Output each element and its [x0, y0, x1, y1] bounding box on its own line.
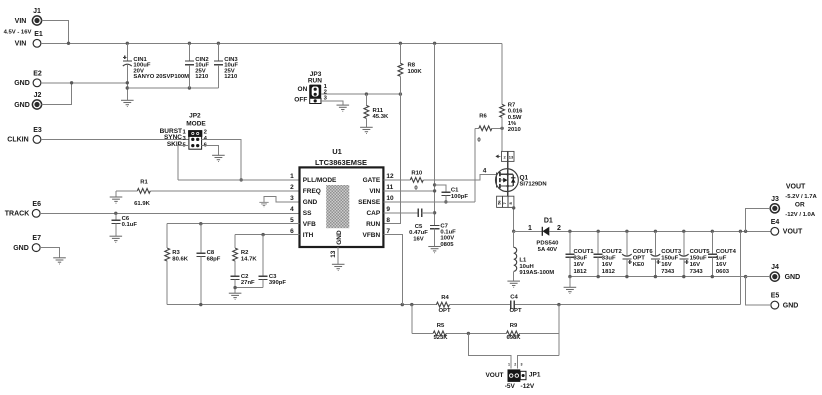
svg-text:D1: D1: [544, 217, 553, 224]
svg-text:100pF: 100pF: [451, 194, 468, 200]
capacitor C3: [259, 235, 287, 288]
svg-text:100K: 100K: [408, 69, 423, 75]
svg-text:33uF: 33uF: [574, 256, 588, 262]
svg-text:-5V: -5V: [505, 383, 516, 390]
svg-text:C3: C3: [269, 274, 277, 280]
svg-text:14.7K: 14.7K: [241, 256, 257, 262]
capacitor COUT4: [708, 231, 737, 276]
capacitor COUT5: [679, 231, 710, 276]
wire E2 to input gnd node: [41, 82, 127, 84]
wire drain to SW node: [513, 207, 515, 231]
wire R5 R9 line: [412, 332, 559, 334]
svg-text:13: 13: [330, 250, 337, 258]
svg-text:U1: U1: [332, 147, 342, 156]
ground R1: [110, 197, 123, 203]
wire SENSE line: [383, 201, 475, 203]
svg-text:SENSE: SENSE: [358, 199, 381, 206]
wire VOUT drop to feedback rail: [739, 231, 741, 304]
node C2 bottom: [233, 286, 236, 289]
wire J2 to E2 wire: [42, 83, 72, 105]
capacitor COUT3: [651, 231, 682, 276]
ground R11: [360, 127, 373, 133]
terminal J4: [770, 264, 800, 281]
resistor R10: [383, 171, 423, 192]
capacitor C5: [383, 209, 434, 243]
svg-text:7343: 7343: [690, 269, 704, 275]
svg-text:1210: 1210: [195, 74, 209, 80]
svg-text:E7: E7: [32, 235, 41, 242]
wire R5 branch drop: [411, 305, 413, 334]
resistor R11: [364, 94, 389, 127]
svg-text:1: 1: [508, 362, 510, 366]
svg-text:C6: C6: [122, 216, 130, 222]
ground C2: [229, 293, 242, 299]
ground U1 pin3: [259, 202, 268, 207]
svg-text:0805: 0805: [440, 242, 454, 248]
ground C6: [110, 236, 123, 242]
jumper JP2 MODE: [160, 113, 208, 150]
jumper JP1: [485, 362, 540, 390]
wire JP3 pin3 to ground: [321, 101, 343, 105]
svg-text:2: 2: [290, 184, 294, 191]
svg-text:LTC3863EMSE: LTC3863EMSE: [315, 158, 367, 167]
svg-text:C5: C5: [415, 224, 423, 230]
svg-text:45.3K: 45.3K: [373, 114, 389, 120]
node bottom rail junctions: [199, 303, 561, 306]
svg-text:VIN: VIN: [15, 41, 27, 48]
capacitor C4: [509, 295, 522, 314]
svg-text:-5.2V / 1.7A: -5.2V / 1.7A: [785, 194, 817, 200]
svg-text:10uH: 10uH: [519, 264, 533, 270]
capacitor COUT6: [622, 231, 653, 276]
svg-text:5A 40V: 5A 40V: [538, 247, 558, 253]
svg-text:0.1uF: 0.1uF: [122, 222, 138, 228]
svg-text:10: 10: [386, 195, 394, 202]
svg-text:MODE: MODE: [186, 120, 206, 127]
wire ITH line: [235, 234, 299, 236]
svg-text:OFF: OFF: [294, 96, 307, 103]
node C1 bottom on SENSE: [444, 200, 447, 203]
svg-text:COUT3: COUT3: [661, 249, 682, 255]
ground C7: [428, 247, 441, 253]
svg-text:PDS540: PDS540: [536, 241, 559, 247]
svg-text:33uF: 33uF: [602, 256, 616, 262]
resistor R8: [398, 43, 422, 94]
wire JP1 right feed: [518, 356, 559, 369]
svg-text:150uF: 150uF: [661, 256, 678, 262]
wire output GND rail: [570, 276, 746, 278]
svg-text:C8: C8: [207, 250, 215, 256]
wire SW to D1: [514, 230, 543, 232]
resistor R5: [433, 323, 448, 341]
svg-text:JP1: JP1: [529, 371, 541, 378]
svg-text:0.1uF: 0.1uF: [440, 230, 456, 236]
wire TRACK to SS: [40, 212, 299, 214]
diode D1: [528, 217, 561, 253]
svg-text:E5: E5: [771, 293, 780, 300]
node R6 R7 junction: [500, 127, 503, 130]
wire input cap bottom rail: [127, 87, 218, 89]
capacitor CIN2: [185, 43, 209, 88]
svg-text:CLKIN: CLKIN: [7, 137, 28, 144]
svg-text:SKIP: SKIP: [167, 141, 183, 148]
wire R6 left vertical to SENSE: [474, 128, 476, 202]
resistor R4: [436, 295, 451, 314]
wire PLL/MODE line: [178, 179, 300, 181]
node VIN vertical junctions: [433, 183, 436, 214]
svg-text:523K: 523K: [433, 335, 448, 341]
transistor Q1 source pin boxes: [496, 151, 514, 161]
svg-text:C1: C1: [451, 188, 459, 194]
svg-text:VOUT: VOUT: [485, 372, 503, 379]
capacitor C7: [430, 223, 456, 248]
svg-text:PLL/MODE: PLL/MODE: [303, 177, 337, 184]
svg-text:VFBN: VFBN: [362, 232, 380, 239]
wire GATE to Q1: [423, 174, 496, 180]
ground L1: [507, 281, 520, 287]
svg-text:R1: R1: [140, 180, 148, 186]
wire VIN pin11: [383, 190, 434, 192]
svg-text:GND: GND: [13, 245, 29, 252]
wire U1 pin13: [337, 247, 339, 264]
svg-text:4: 4: [483, 168, 487, 175]
svg-text:GND: GND: [785, 274, 801, 281]
resistor R2: [233, 235, 258, 277]
svg-text:698K: 698K: [506, 335, 521, 341]
svg-text:11: 11: [386, 184, 393, 191]
ground E7: [53, 258, 66, 264]
svg-text:R2: R2: [241, 250, 249, 256]
terminal E4: [771, 219, 803, 236]
svg-text:R7: R7: [508, 102, 516, 108]
svg-text:COUT1: COUT1: [574, 249, 595, 255]
svg-text:150uF: 150uF: [690, 256, 707, 262]
svg-text:FREQ: FREQ: [303, 188, 321, 195]
svg-text:SS: SS: [303, 210, 312, 217]
svg-text:J2: J2: [34, 92, 42, 99]
wire JP2 pin5 to PLL/MODE: [178, 146, 189, 180]
transistor Q1 drain pin boxes: [497, 196, 514, 207]
wire COUT1 gnd stem: [569, 277, 571, 288]
svg-text:VIN: VIN: [369, 188, 380, 195]
svg-text:4.5V - 16V: 4.5V - 16V: [4, 30, 32, 36]
svg-text:COUT5: COUT5: [690, 249, 711, 255]
svg-text:4: 4: [290, 206, 294, 213]
wire VOUT rail: [549, 230, 771, 232]
svg-text:OR: OR: [795, 202, 805, 209]
svg-text:R5: R5: [437, 323, 445, 329]
ground input: [121, 100, 134, 106]
svg-text:GND: GND: [783, 302, 799, 309]
svg-text:CAP: CAP: [366, 210, 380, 217]
ground U1 pin13: [332, 264, 345, 270]
svg-text:ITH: ITH: [303, 232, 314, 239]
svg-text:2: 2: [514, 362, 516, 366]
svg-text:COUT6: COUT6: [633, 249, 654, 255]
svg-text:GND: GND: [336, 230, 343, 245]
svg-text:8: 8: [386, 217, 390, 224]
terminal E2: [14, 70, 42, 87]
node C8 top: [199, 222, 202, 225]
svg-text:68pF: 68pF: [207, 256, 221, 262]
wire CLKIN to JP2: [41, 138, 189, 140]
resistor R1: [116, 180, 300, 207]
terminal E5: [771, 293, 799, 310]
wire VFB line: [167, 223, 299, 225]
ground JP3: [337, 105, 350, 111]
svg-text:3: 3: [290, 195, 294, 202]
node drain junctions: [512, 206, 515, 233]
node C6 junction: [114, 212, 117, 215]
capacitor COUT2: [594, 231, 623, 276]
svg-text:1210: 1210: [224, 74, 238, 80]
svg-text:OPT: OPT: [509, 308, 522, 314]
wire JP2 pin4 to PLL/MODE: [202, 139, 242, 180]
svg-text:16V: 16V: [661, 262, 672, 268]
svg-text:-12V / 1.0A: -12V / 1.0A: [785, 212, 816, 218]
svg-text:ON: ON: [298, 86, 308, 93]
svg-text:16V: 16V: [574, 262, 585, 268]
capacitor COUT1: [565, 231, 594, 276]
svg-text:390pF: 390pF: [269, 280, 286, 286]
svg-text:2010: 2010: [508, 127, 522, 133]
svg-text:VFB: VFB: [303, 221, 316, 228]
wire JP1 left feed: [468, 333, 511, 368]
svg-text:E2: E2: [33, 70, 42, 77]
op-amp/IC U1 LTC3863EMSE box: [290, 147, 394, 247]
terminal E6: [5, 201, 41, 218]
node GND rail junctions: [568, 275, 747, 278]
node RUN net junctions: [365, 92, 402, 95]
svg-text:GND: GND: [14, 102, 30, 109]
svg-text:16V: 16V: [413, 236, 424, 242]
wire VFBN pin7 down: [383, 235, 402, 305]
svg-text:COUT2: COUT2: [602, 249, 623, 255]
svg-text:0.5W: 0.5W: [508, 115, 522, 121]
svg-text:R8: R8: [408, 63, 416, 69]
capacitor C6: [111, 213, 137, 236]
svg-text:12: 12: [386, 173, 394, 180]
jumper JP3 RUN: [294, 71, 327, 104]
terminal J1: [4, 8, 42, 36]
node R5 R9 junction: [467, 332, 470, 335]
capacitor C2: [231, 274, 255, 293]
capacitor CIN3: [214, 43, 238, 88]
transistor Q1: [496, 161, 547, 196]
wire JP3 pin2 RUN net: [321, 93, 400, 95]
svg-text:SANYO 20SVP100M: SANYO 20SVP100M: [133, 74, 189, 80]
svg-text:R4: R4: [441, 295, 449, 301]
terminal E1: [15, 31, 43, 48]
svg-text:C2: C2: [241, 274, 249, 280]
svg-text:OPT: OPT: [438, 308, 451, 314]
svg-text:SI7129DN: SI7129DN: [520, 181, 547, 187]
resistor R9: [506, 323, 521, 341]
resistor R6: [475, 114, 502, 144]
ground JP2: [212, 155, 225, 161]
svg-text:7343: 7343: [661, 269, 675, 275]
svg-text:56: 56: [497, 200, 502, 205]
svg-text:GND: GND: [303, 199, 318, 206]
wire J3 to VOUT rail: [746, 208, 771, 231]
node PLL junction: [240, 178, 243, 181]
svg-text:3: 3: [521, 362, 523, 366]
svg-text:J4: J4: [771, 264, 779, 271]
svg-text:13: 13: [509, 155, 514, 160]
wire E5 up to GND rail: [746, 277, 771, 306]
svg-text:919AS-100M: 919AS-100M: [519, 270, 554, 276]
svg-text:JP2: JP2: [189, 113, 201, 120]
svg-text:80.6K: 80.6K: [172, 256, 188, 262]
svg-text:RUN: RUN: [366, 221, 380, 228]
node VIN rail junctions: [67, 42, 437, 45]
svg-text:GATE: GATE: [363, 177, 381, 184]
resistor R7: [500, 43, 523, 151]
svg-text:5: 5: [290, 217, 294, 224]
wire RUN vertical to pin 8: [383, 94, 400, 224]
svg-text:16V: 16V: [716, 262, 727, 268]
terminal E7: [13, 235, 41, 252]
svg-text:KE0: KE0: [633, 262, 645, 268]
wire U1 pin3 gnd jog: [264, 197, 300, 203]
svg-text:0.47uF: 0.47uF: [409, 230, 428, 236]
svg-text:R3: R3: [172, 250, 180, 256]
wire VFB bottom rail: [167, 304, 740, 306]
svg-text:16V: 16V: [690, 262, 701, 268]
svg-text:0.016: 0.016: [508, 109, 523, 115]
svg-text:L1: L1: [519, 258, 527, 264]
svg-text:E4: E4: [771, 219, 780, 226]
node VOUT output labels: [785, 183, 817, 218]
svg-text:27nF: 27nF: [241, 280, 255, 286]
svg-text:C4: C4: [510, 295, 518, 301]
node CIN1 junctions: [126, 81, 129, 90]
resistor R3: [165, 224, 189, 305]
terminal J3: [770, 196, 779, 213]
svg-text:-12V: -12V: [521, 383, 535, 390]
svg-text:7: 7: [386, 228, 390, 235]
svg-text:J3: J3: [771, 196, 779, 203]
svg-text:R10: R10: [411, 171, 423, 177]
svg-text:J1: J1: [33, 8, 41, 15]
wire VIN vertical: [434, 43, 436, 225]
wire C2 C3 bottom link: [235, 287, 263, 289]
wire VIN top rail: [41, 42, 502, 44]
svg-text:OPT: OPT: [633, 256, 646, 262]
svg-text:1%: 1%: [508, 121, 517, 127]
svg-text:0603: 0603: [716, 269, 730, 275]
wire J4 to GND rail: [746, 276, 771, 278]
svg-text:16V: 16V: [602, 262, 613, 268]
svg-text:61.9K: 61.9K: [134, 201, 150, 207]
svg-text:GND: GND: [14, 80, 30, 87]
node VOUT rail junctions: [568, 230, 747, 233]
svg-text:1812: 1812: [574, 269, 588, 275]
wire J1 to VIN rail: [42, 21, 69, 44]
node CIN2 bottom: [188, 86, 191, 89]
svg-text:E3: E3: [33, 127, 42, 134]
svg-text:RUN: RUN: [308, 78, 322, 85]
node C3 top: [261, 233, 264, 236]
svg-text:VIN: VIN: [15, 18, 27, 25]
terminal E3: [7, 127, 42, 144]
svg-text:VOUT: VOUT: [783, 229, 803, 236]
capacitor C8: [196, 224, 220, 305]
terminal J2: [14, 92, 41, 109]
node E2/J2 junction: [70, 81, 73, 84]
svg-text:R11: R11: [373, 108, 384, 114]
inductor L1: [514, 231, 555, 281]
wire R9 right vertical: [558, 305, 560, 356]
svg-text:9: 9: [386, 206, 390, 213]
capacitor C1: [435, 185, 469, 202]
svg-text:100V: 100V: [440, 236, 454, 242]
capacitor CIN1: [123, 43, 189, 100]
wire JP2 pin6 to ground: [202, 146, 219, 156]
svg-text:1: 1: [528, 225, 532, 232]
svg-text:E6: E6: [32, 201, 41, 208]
svg-text:6: 6: [290, 228, 294, 235]
svg-text:COUT4: COUT4: [716, 249, 737, 255]
svg-text:1: 1: [290, 173, 294, 180]
svg-text:1812: 1812: [602, 269, 616, 275]
svg-text:E1: E1: [34, 31, 43, 38]
svg-text:VOUT: VOUT: [786, 183, 806, 190]
svg-text:TRACK: TRACK: [5, 211, 30, 218]
svg-text:R9: R9: [510, 323, 518, 329]
svg-text:1uF: 1uF: [716, 256, 727, 262]
svg-text:R6: R6: [479, 114, 487, 120]
wire E7 to ground: [40, 248, 59, 258]
ground output: [564, 287, 577, 293]
svg-text:SYNC: SYNC: [164, 134, 182, 141]
svg-text:C7: C7: [440, 223, 448, 229]
